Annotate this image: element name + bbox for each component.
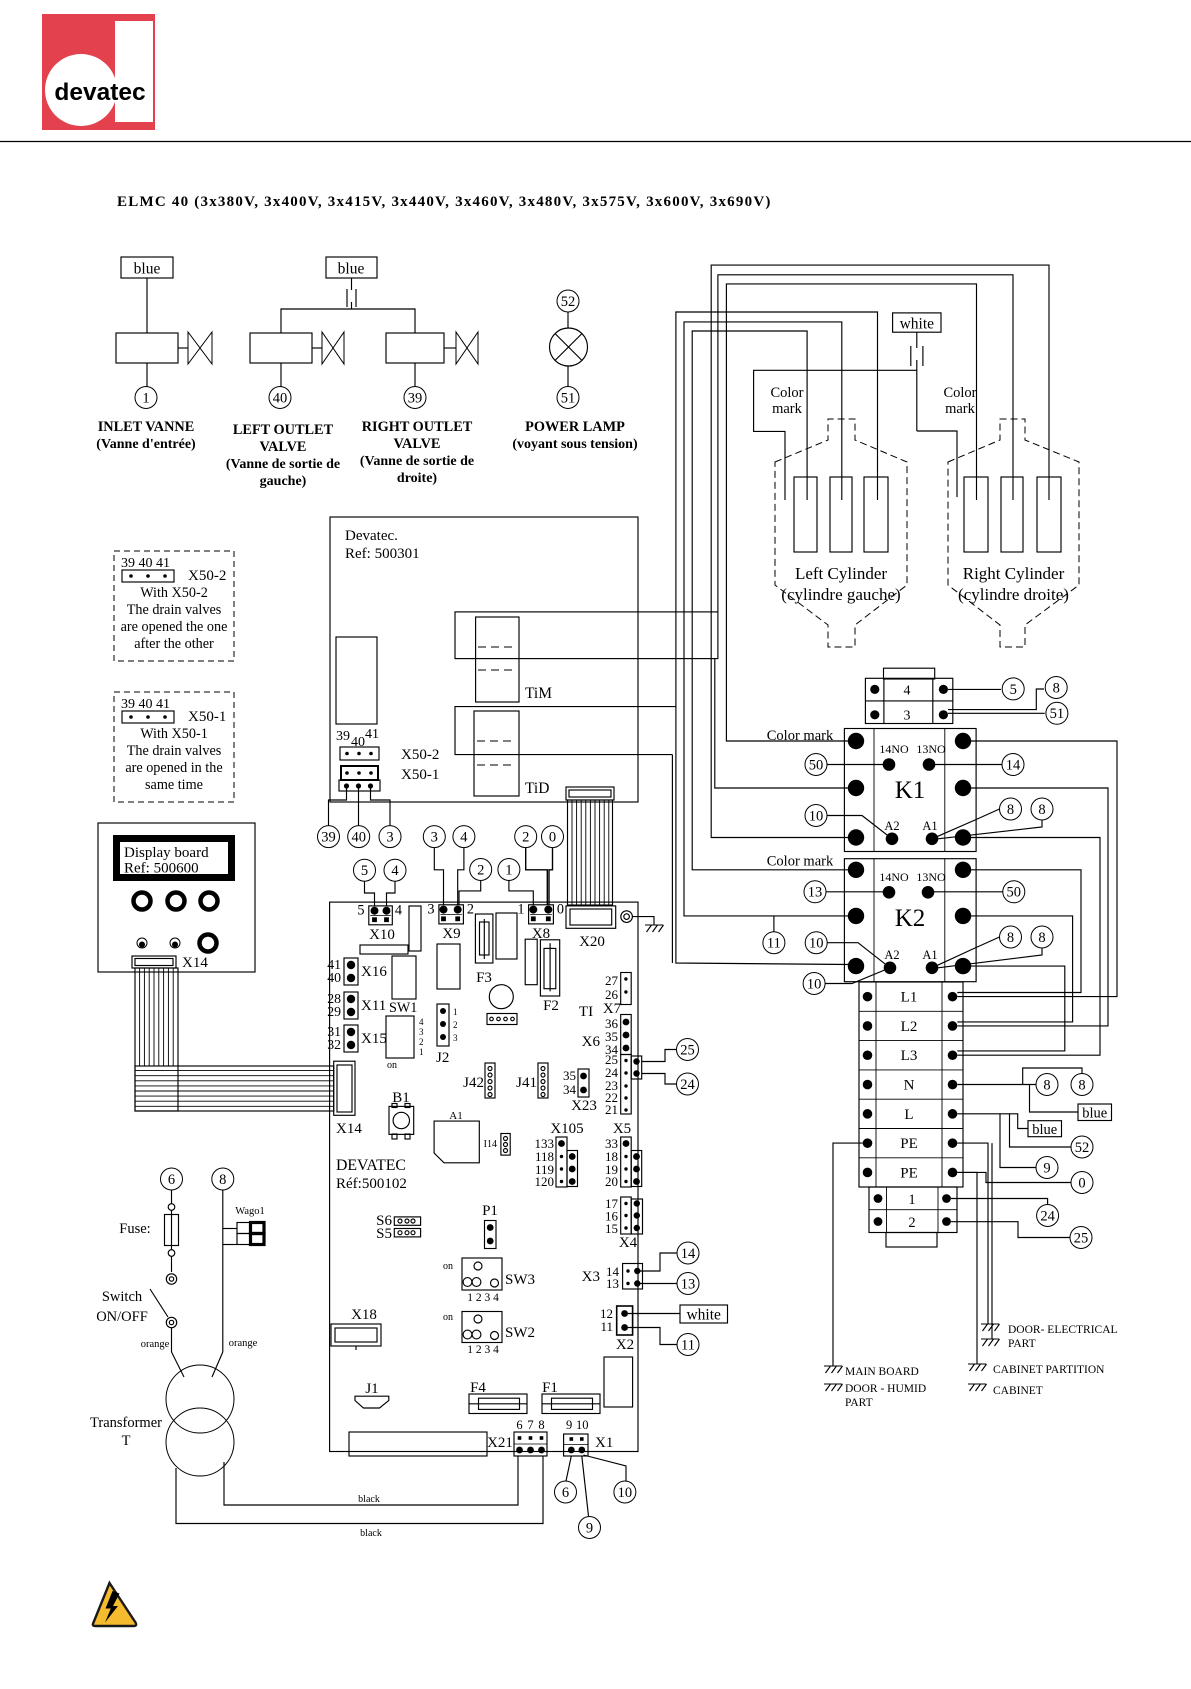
wire X50-1 to node 39 <box>329 788 347 826</box>
wire 8b to K1 A1 <box>938 820 1042 839</box>
X50-2 note box <box>114 551 234 661</box>
X20 label <box>579 934 605 950</box>
left outlet caption <box>226 422 340 489</box>
wire N to node 8b <box>1023 1068 1082 1085</box>
svg-text:POWER LAMP: POWER LAMP <box>525 419 625 435</box>
connector X3 <box>582 1264 643 1292</box>
svg-text:CABINET: CABINET <box>993 1385 1043 1397</box>
svg-text:DOOR - HUMID: DOOR - HUMID <box>845 1383 926 1395</box>
right outlet caption <box>360 419 474 486</box>
svg-text:39 40 41: 39 40 41 <box>121 556 170 571</box>
svg-text:1: 1 <box>505 862 512 878</box>
transformer TiM <box>455 612 718 702</box>
connector X16 <box>327 957 387 985</box>
svg-text:13: 13 <box>606 1276 619 1291</box>
wire X50-1 to node 40 <box>358 788 360 826</box>
svg-text:2: 2 <box>522 830 529 846</box>
connector X1 <box>564 1418 614 1456</box>
connector J1 <box>355 1381 389 1408</box>
svg-text:8: 8 <box>1053 680 1060 696</box>
svg-text:40: 40 <box>273 390 288 406</box>
node 8a (K1) <box>1000 798 1022 820</box>
svg-text:TiD: TiD <box>525 780 549 797</box>
svg-text:X50-2: X50-2 <box>401 747 439 763</box>
svg-text:4: 4 <box>395 903 402 919</box>
wire X3 to node 14 <box>637 1253 677 1271</box>
svg-text:blue: blue <box>1032 1122 1057 1138</box>
fuse F2 <box>540 940 559 1014</box>
black wire label 2 <box>360 1528 382 1539</box>
svg-text:Wago1: Wago1 <box>235 1206 264 1217</box>
node 9 (PE) <box>1036 1157 1058 1179</box>
svg-text:4: 4 <box>460 830 468 846</box>
node 13 (K2) <box>804 881 826 903</box>
svg-text:TI: TI <box>579 1004 593 1020</box>
node 40 (board) <box>348 826 370 848</box>
wire 2 to X9 <box>459 881 481 905</box>
svg-text:50: 50 <box>1007 885 1022 901</box>
svg-text:2: 2 <box>477 862 484 878</box>
wire 10a to K2 A2 <box>827 943 890 968</box>
svg-text:X3: X3 <box>582 1269 600 1285</box>
svg-text:25: 25 <box>680 1042 695 1058</box>
svg-text:PE: PE <box>900 1165 918 1181</box>
svg-text:26: 26 <box>605 987 619 1002</box>
svg-text:3: 3 <box>904 709 911 724</box>
connector S6 <box>376 1213 420 1229</box>
X14 label (display) <box>182 955 208 971</box>
node 50 (K2) <box>1003 881 1025 903</box>
black wire label 1 <box>358 1494 380 1505</box>
svg-text:29: 29 <box>327 1004 341 1019</box>
svg-text:The drain valves: The drain valves <box>127 602 222 618</box>
svg-text:8: 8 <box>1038 802 1045 818</box>
ground (cabinet partition) <box>968 1364 987 1371</box>
svg-text:black: black <box>360 1528 382 1539</box>
svg-text:Transformer: Transformer <box>90 1415 162 1431</box>
svg-text:F2: F2 <box>543 998 559 1014</box>
svg-text:LEFT OUTLET: LEFT OUTLET <box>233 422 334 438</box>
ribbon cable display to main board <box>135 968 334 1111</box>
svg-text:10: 10 <box>809 936 824 952</box>
contactor K1 <box>844 729 976 852</box>
svg-text:3: 3 <box>431 830 438 846</box>
svg-text:0: 0 <box>557 902 564 918</box>
svg-text:52: 52 <box>561 294 576 310</box>
svg-text:4: 4 <box>419 1017 424 1027</box>
svg-text:40: 40 <box>351 830 366 846</box>
blue label box (inlet) <box>121 257 173 278</box>
devatec logo <box>42 14 155 130</box>
node 25 (board) <box>677 1039 699 1061</box>
svg-text:3: 3 <box>453 1033 458 1043</box>
svg-text:on: on <box>443 1312 453 1323</box>
svg-text:X50-1: X50-1 <box>401 767 439 783</box>
svg-text:P1: P1 <box>482 1203 498 1219</box>
wire transformer to X21 pin8 (black) <box>176 1456 543 1524</box>
svg-text:1 2 3 4: 1 2 3 4 <box>467 1292 499 1304</box>
svg-text:24: 24 <box>680 1077 695 1093</box>
svg-text:1: 1 <box>419 1047 424 1057</box>
wire 3 to X9 <box>434 848 443 905</box>
board 500301 outline <box>330 517 638 802</box>
fuse F4 <box>469 1380 527 1414</box>
wire 10b to K2 A2 <box>825 968 890 984</box>
power lamp caption <box>512 419 638 452</box>
svg-text:27: 27 <box>605 973 619 988</box>
wire 8b to K2 A1 <box>938 948 1042 968</box>
svg-text:black: black <box>358 1494 380 1505</box>
door electrical ground label <box>1008 1324 1118 1350</box>
node 0 (PE) <box>1071 1172 1093 1194</box>
right outlet valve symbol <box>456 332 478 364</box>
node 10b (K2) <box>803 973 825 995</box>
wire L to blue box <box>957 1114 1028 1129</box>
node 10a (K2) <box>805 932 827 954</box>
connector J41 <box>516 1063 548 1098</box>
connector X2 <box>600 1306 634 1353</box>
svg-text:X21: X21 <box>487 1435 513 1451</box>
svg-text:J42: J42 <box>463 1075 484 1091</box>
svg-text:8: 8 <box>1078 1077 1085 1093</box>
wire K1 mid to L2 <box>957 788 1108 1026</box>
ground (main board) <box>824 1366 843 1373</box>
svg-text:2: 2 <box>419 1037 424 1047</box>
svg-text:S5: S5 <box>376 1226 392 1242</box>
wire pin25 to node 25 <box>642 1050 677 1062</box>
wire K1 13NO to node 14 <box>935 764 1002 766</box>
ribbon cable X20 <box>566 787 614 905</box>
relay block (board 500301) <box>336 637 377 724</box>
svg-text:droite): droite) <box>397 471 438 486</box>
white wire connector <box>911 332 923 431</box>
white label box (X2) <box>680 1305 728 1324</box>
wire K2 top to L1 <box>957 870 1081 993</box>
node 8b (K1) <box>1031 798 1053 820</box>
node 10 (K1) <box>805 805 827 827</box>
color mark label K1 <box>767 728 834 744</box>
svg-text:are opened in the: are opened in the <box>125 760 222 776</box>
wire 0 to X8 <box>549 848 553 905</box>
svg-text:X50-2: X50-2 <box>188 568 226 584</box>
svg-text:A1: A1 <box>922 948 937 962</box>
wire K1 top to L1 <box>957 741 1117 997</box>
wire pin24 to node 24 <box>642 1074 677 1085</box>
node 25 (terminal) <box>1070 1227 1092 1249</box>
svg-text:11: 11 <box>681 1337 695 1353</box>
blue label box (N) <box>1078 1104 1112 1122</box>
svg-text:L: L <box>904 1107 913 1123</box>
svg-text:same time: same time <box>145 777 203 793</box>
orange wire label left <box>141 1339 170 1350</box>
wire K1 bot to L3 <box>957 838 1100 1056</box>
wire X1 to node 9 <box>582 1456 589 1516</box>
svg-text:3: 3 <box>427 902 434 918</box>
node 5 (terminal) <box>1002 678 1024 700</box>
node 3 (X9) <box>423 826 445 848</box>
svg-text:X16: X16 <box>361 964 387 980</box>
svg-text:6: 6 <box>516 1418 522 1432</box>
wire lamp to 51 <box>567 366 569 387</box>
svg-text:A2: A2 <box>884 819 899 833</box>
svg-text:40: 40 <box>327 970 341 985</box>
svg-text:8: 8 <box>1043 1077 1050 1093</box>
wire 52 to lamp <box>567 312 569 328</box>
svg-text:With X50-1: With X50-1 <box>140 726 208 742</box>
svg-text:24: 24 <box>1040 1208 1055 1224</box>
connector X23 <box>563 1068 597 1114</box>
svg-text:white: white <box>900 315 935 332</box>
left cylinder color mark label <box>770 385 803 417</box>
svg-text:6: 6 <box>168 1172 175 1188</box>
wire N to node 8a <box>957 1084 1036 1086</box>
wire 13 to K2 14NO <box>826 891 883 893</box>
wire left outlet to node 40 <box>280 363 282 387</box>
wire K1-top to right cyl e1 <box>726 284 976 741</box>
svg-text:X14: X14 <box>182 955 208 971</box>
svg-text:X10: X10 <box>369 927 395 943</box>
component (rect A) <box>409 906 421 951</box>
svg-text:Right Cylinder: Right Cylinder <box>963 564 1065 583</box>
wire white to right color mark <box>917 431 957 497</box>
wire K2-mid to left cyl e2 <box>684 322 850 916</box>
svg-text:8: 8 <box>1038 930 1045 946</box>
connector X20 <box>566 906 616 928</box>
warning triangle <box>93 1583 136 1626</box>
connector J42 <box>463 1063 495 1098</box>
node 4 (X9) <box>453 826 475 848</box>
svg-text:INLET VANNE: INLET VANNE <box>98 419 195 435</box>
board 500301 label <box>345 528 420 562</box>
wire X2 to node 11 <box>628 1328 677 1345</box>
wago1 label <box>235 1206 264 1217</box>
svg-text:0: 0 <box>1078 1175 1085 1191</box>
svg-text:DEVATEC: DEVATEC <box>336 1157 406 1174</box>
svg-text:1: 1 <box>453 1007 458 1017</box>
svg-text:(Vanne de sortie de: (Vanne de sortie de <box>226 457 340 472</box>
connector X18 <box>331 1307 381 1350</box>
svg-text:J1: J1 <box>365 1381 378 1397</box>
wire 1 to X8 <box>509 881 533 905</box>
component (rect E) <box>496 913 517 959</box>
svg-text:14: 14 <box>681 1246 696 1262</box>
node 10 (X1) <box>614 1481 636 1503</box>
connector X8 <box>517 902 564 943</box>
switch ON/OFF <box>150 1257 184 1378</box>
left outlet valve body <box>250 333 322 363</box>
svg-text:on: on <box>443 1261 453 1272</box>
svg-text:5: 5 <box>357 903 364 919</box>
svg-text:mark: mark <box>772 401 803 417</box>
connector J2 <box>436 1004 458 1066</box>
node 39 (board) <box>318 826 340 848</box>
wire terminal3 to node 51 <box>948 712 1045 714</box>
inlet valve symbol <box>188 332 212 364</box>
connector X6 <box>582 1015 632 1058</box>
svg-text:Ref: 500600: Ref: 500600 <box>124 861 199 877</box>
display board <box>98 823 255 972</box>
ground (cabinet) <box>968 1384 987 1391</box>
svg-text:VALVE: VALVE <box>394 436 441 452</box>
svg-text:15: 15 <box>605 1221 618 1236</box>
wire L to node 9 <box>1000 1114 1036 1168</box>
svg-text:1: 1 <box>142 390 149 406</box>
wire terminal1 to node 24 <box>951 1199 1048 1205</box>
svg-text:14NO: 14NO <box>879 742 909 756</box>
svg-text:51: 51 <box>561 390 576 406</box>
svg-text:3: 3 <box>386 830 393 846</box>
switch SW1 <box>386 1000 424 1071</box>
svg-text:X6: X6 <box>582 1034 601 1050</box>
fuse F1 <box>542 1380 600 1414</box>
svg-text:X20: X20 <box>579 934 605 950</box>
wire terminal2 to node 25 <box>951 1222 1070 1238</box>
white label box <box>893 313 941 332</box>
wire right outlet to node 39 <box>414 363 416 387</box>
svg-text:39: 39 <box>408 390 423 406</box>
node 52 (L) <box>1071 1136 1093 1158</box>
connector bar <box>349 1432 487 1456</box>
wire PE to node 0 <box>957 1172 1071 1182</box>
node 50 (K1) <box>805 754 827 776</box>
svg-text:The drain valves: The drain valves <box>127 743 222 759</box>
right cylinder color mark label <box>943 385 976 417</box>
wire K1-mid / TiM to right cyl e2 <box>715 275 1013 788</box>
node 14 (K1) <box>1002 754 1024 776</box>
wire 10 to K1 A2 <box>827 816 892 839</box>
component (rect B) <box>360 945 408 954</box>
svg-text:8: 8 <box>219 1172 226 1188</box>
svg-text:SW3: SW3 <box>505 1272 535 1288</box>
svg-text:Color: Color <box>943 385 976 401</box>
left outlet valve symbol <box>322 332 344 364</box>
wire X1 to node 10 <box>584 1455 627 1481</box>
svg-text:Color mark: Color mark <box>767 854 834 870</box>
svg-text:X15: X15 <box>361 1031 387 1047</box>
node 11 (K2) <box>763 932 785 954</box>
main board ground label <box>845 1366 919 1378</box>
component (rect C) <box>392 956 416 999</box>
wire PE1 to door electrical ground <box>957 1143 988 1324</box>
wire K2 mid to L2 <box>957 916 1072 1022</box>
buzzer <box>489 985 513 1009</box>
connector X14 (main board) <box>334 1061 355 1115</box>
node 11 (X2) <box>677 1334 699 1356</box>
node 51 (terminal) <box>1046 702 1068 724</box>
cabinet ground label <box>993 1385 1043 1397</box>
svg-text:X2: X2 <box>616 1337 634 1353</box>
svg-text:Fuse:: Fuse: <box>119 1221 150 1237</box>
pushbutton B1 <box>389 1090 414 1139</box>
svg-text:K1: K1 <box>895 777 926 804</box>
wire L to node 52 <box>1010 1114 1072 1147</box>
svg-text:34: 34 <box>563 1082 577 1097</box>
ground (door electrical 2) <box>981 1339 1000 1346</box>
node 6 (fuse) <box>161 1168 183 1190</box>
svg-text:Display board: Display board <box>124 845 209 861</box>
node 52 <box>557 290 579 312</box>
svg-text:L1: L1 <box>901 990 918 1006</box>
connector X21 <box>514 1418 547 1456</box>
svg-text:white: white <box>686 1307 721 1324</box>
X50-1 note box <box>114 692 234 802</box>
connector X14 (display) <box>132 956 176 968</box>
svg-text:13: 13 <box>681 1276 696 1292</box>
svg-text:blue: blue <box>1082 1106 1107 1122</box>
svg-text:13NO: 13NO <box>916 870 946 884</box>
color mark label K2 <box>767 854 834 870</box>
node 51 <box>557 387 579 409</box>
node 2 (X8) <box>515 826 537 848</box>
wire K2-top to left cyl e1 <box>692 331 850 870</box>
X20 ground eyelet <box>621 911 654 925</box>
switch SW3 <box>443 1258 535 1304</box>
wire PE2 to cabinet partition ground <box>957 1172 977 1364</box>
wire 4 to X10 <box>387 881 396 906</box>
node 9 (X1) <box>579 1517 601 1539</box>
wire 5 to X10 <box>365 881 375 906</box>
right cylinder <box>948 419 1079 647</box>
svg-text:5: 5 <box>361 863 368 879</box>
svg-text:devatec: devatec <box>54 79 145 106</box>
wire X1 to node 6 <box>566 1456 571 1481</box>
main board label <box>336 1157 407 1192</box>
connector X50-2 (board) <box>340 747 439 763</box>
wire N to blue box <box>1030 1085 1079 1113</box>
header rule <box>0 141 1191 143</box>
node 5 (X10) <box>354 859 376 881</box>
X50 pin labels 39 40 41 <box>336 727 379 750</box>
svg-text:0: 0 <box>549 830 556 846</box>
wire PE1 to door electrical ground 2 <box>991 1143 993 1339</box>
svg-text:A2: A2 <box>884 948 899 962</box>
svg-text:X5: X5 <box>613 1121 631 1137</box>
door humid ground label <box>845 1383 926 1409</box>
main board 500102 outline <box>330 902 638 1451</box>
svg-text:J41: J41 <box>516 1075 537 1091</box>
wire blue to inlet valve <box>146 278 148 333</box>
svg-text:CABINET PARTITION: CABINET PARTITION <box>993 1364 1105 1376</box>
wire K2 13NO to node 50 <box>934 891 1003 893</box>
svg-text:Devatec.: Devatec. <box>345 528 398 544</box>
svg-text:PE: PE <box>900 1136 918 1152</box>
connector X7 <box>603 973 631 1018</box>
svg-text:SW1: SW1 <box>389 1000 417 1016</box>
node 6 (X1) <box>555 1481 577 1503</box>
svg-text:X11: X11 <box>361 998 386 1014</box>
svg-text:K2: K2 <box>895 905 926 932</box>
svg-text:1: 1 <box>908 1192 915 1208</box>
switch SW2 <box>443 1312 535 1357</box>
node 8b (N) <box>1071 1074 1093 1096</box>
fuse <box>165 1190 179 1256</box>
svg-text:orange: orange <box>141 1339 170 1350</box>
ground (X20) <box>645 925 664 932</box>
svg-text:X7: X7 <box>603 1001 622 1017</box>
svg-text:2: 2 <box>467 902 474 918</box>
svg-text:MAIN BOARD: MAIN BOARD <box>845 1366 919 1378</box>
node 13 (X3) <box>677 1273 699 1295</box>
svg-text:10: 10 <box>809 808 824 824</box>
svg-text:20: 20 <box>605 1174 618 1189</box>
svg-text:L2: L2 <box>901 1019 918 1035</box>
svg-text:ELMC 40 (3x380V, 3x400V, 3x415: ELMC 40 (3x380V, 3x400V, 3x415V, 3x440V,… <box>117 194 772 210</box>
blue label box (L) <box>1028 1121 1062 1138</box>
svg-text:1: 1 <box>517 902 524 918</box>
svg-text:DOOR- ELECTRICAL: DOOR- ELECTRICAL <box>1008 1324 1118 1336</box>
node 39 <box>404 387 426 409</box>
svg-text:Réf:500102: Réf:500102 <box>336 1176 407 1192</box>
